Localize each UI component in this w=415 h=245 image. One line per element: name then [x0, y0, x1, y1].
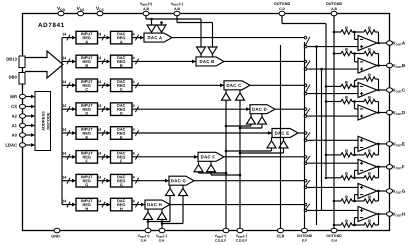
wire feedback A to output [375, 32, 379, 43]
resistor R (D1) [341, 95, 352, 104]
input register E [76, 127, 98, 140]
dac C [224, 81, 250, 90]
svg-text:AD7841: AD7841 [38, 22, 65, 29]
svg-text:A: A [120, 39, 123, 44]
svg-text:R: R [368, 25, 371, 30]
resistor R (E1) [341, 148, 352, 157]
wire dac reg B to dac B [132, 60, 196, 64]
wire feedback F to output [375, 167, 379, 178]
svg-text:R: R [345, 25, 348, 30]
svg-text:A1: A1 [12, 123, 18, 128]
wire input reg B to dac reg B [98, 60, 111, 64]
bus width slash 14 row B (mid) [97, 56, 105, 64]
svg-text:DB0: DB0 [9, 74, 18, 79]
svg-text:DAC B: DAC B [199, 59, 214, 64]
clear switch G [304, 179, 310, 188]
reference buffer C+ [222, 90, 231, 100]
svg-text:R: R [345, 194, 348, 199]
pin VOUTE [387, 142, 405, 148]
reference buffer A+ [147, 25, 156, 33]
pin CLR [276, 228, 285, 238]
wire dac reg F to dac F [132, 155, 198, 159]
svg-text:G,H: G,H [141, 238, 147, 242]
svg-text:DAC C: DAC C [226, 83, 241, 88]
svg-text:OUTGND: OUTGND [326, 234, 342, 238]
bus width slash 14 row B (input) [62, 56, 70, 64]
op-amp B [358, 58, 377, 73]
pin GND [51, 228, 60, 238]
svg-text:C,D,E,F: C,D,E,F [215, 238, 226, 242]
svg-text:H: H [85, 206, 88, 211]
input register D [76, 103, 98, 116]
dac register E [111, 127, 133, 140]
wire R junction H [352, 218, 364, 227]
bus width slash 14 row F (out) [131, 152, 139, 160]
bus width slash 14 row H (mid) [97, 199, 105, 207]
wire op-amp A output [377, 42, 390, 45]
svg-text:C: C [85, 87, 88, 92]
svg-text:C̅S̅: C̅S̅ [11, 104, 18, 109]
wire switch H to op-amp H input [307, 209, 358, 211]
reference buffer E+ [225, 138, 276, 153]
reference buffer C- [236, 90, 245, 100]
svg-text:DAC G: DAC G [171, 178, 187, 183]
bus branch row F [62, 155, 76, 159]
reference buffer F- [207, 161, 242, 176]
bus width slash 14 row C (input) [62, 80, 70, 88]
bus width slash 14 row D (input) [62, 104, 70, 112]
svg-text:DAC A: DAC A [148, 35, 163, 40]
svg-text:R: R [368, 218, 371, 223]
resistor R (G2) [364, 194, 375, 203]
wire input reg H to dac reg H [98, 203, 111, 207]
wire feedback network G from OUTGND rail [333, 200, 341, 203]
svg-text:C,D,E,F: C,D,E,F [236, 238, 247, 242]
bus width slash 14 row D (out) [131, 104, 139, 112]
wire dac C output [250, 84, 304, 86]
svg-text:G,H: G,H [331, 238, 337, 242]
pin VOUTC [387, 88, 406, 94]
svg-text:E: E [85, 135, 88, 140]
wire R junction C [352, 79, 364, 88]
dac register D [111, 103, 133, 116]
input register A [76, 31, 98, 44]
wire op-amp C output [377, 89, 390, 92]
resistor R (B1) [341, 47, 352, 56]
bus fan vertical [61, 38, 63, 205]
svg-text:A0: A0 [12, 133, 18, 138]
wire switch D to op-amp D input [307, 115, 358, 117]
chip boundary [23, 14, 390, 231]
dac register F [111, 150, 133, 163]
wire dac F output [224, 156, 304, 158]
pin VREF(-) A,B [171, 2, 184, 16]
wire input reg F to dac reg F [98, 155, 111, 159]
pin VOUTA [387, 41, 406, 47]
svg-text:A2: A2 [12, 114, 18, 119]
wire feedback network D from OUTGND rail [325, 100, 341, 103]
pin VREF(-) G,H [156, 228, 168, 242]
bus width slash 14 row F (mid) [97, 152, 105, 160]
rail OUTGND A,B / G,H [333, 16, 335, 231]
svg-text:R: R [345, 95, 348, 100]
dac register C [111, 79, 133, 92]
reference buffer E- [239, 138, 288, 155]
svg-text:W̅R̅: W̅R̅ [10, 94, 17, 99]
wire dac G output [194, 180, 304, 182]
reference buffer D+ [225, 114, 256, 128]
op-amp H [358, 207, 377, 222]
pin DB13 [6, 56, 25, 68]
svg-text:R: R [345, 80, 348, 85]
svg-text:A,B: A,B [331, 7, 337, 11]
input register G [76, 174, 98, 187]
wire switch G to op-amp G input [307, 186, 358, 188]
wire dac E output [298, 132, 304, 134]
pin OUTGND E,F [297, 228, 313, 242]
svg-text:OUTGND: OUTGND [297, 234, 313, 238]
wire op-amp F output [377, 166, 390, 169]
wire feedback network H from OUTGND rail [333, 224, 341, 227]
reference buffer H- [158, 209, 167, 219]
pin A0 [12, 133, 35, 138]
rail VREF(-) G,H [161, 219, 163, 230]
svg-text:E: E [120, 135, 123, 140]
bus width slash 14 row A (mid) [97, 32, 105, 40]
svg-text:DB13: DB13 [6, 56, 17, 61]
dac G [169, 176, 194, 185]
rail VREF(+) G,H [147, 219, 149, 230]
dac E [272, 129, 298, 138]
bus width slash 14 row H (out) [131, 199, 139, 207]
svg-text:DECODE: DECODE [46, 112, 51, 129]
dac H [145, 200, 170, 209]
wire feedback network E from OUTGND rail [325, 154, 341, 157]
bus width slash 14 row B (out) [131, 56, 139, 64]
bus branch row B [62, 60, 76, 64]
svg-text:A,B: A,B [143, 7, 149, 11]
wire dac B output [224, 60, 304, 62]
reference buffer B- [208, 47, 217, 57]
pin VOUTF [387, 164, 405, 170]
wire feedback network C from OUTGND rail [325, 85, 341, 88]
svg-text:R: R [368, 171, 371, 176]
power pin VCC [96, 6, 105, 16]
input register F [76, 150, 98, 163]
bus width slash 14 row E (input) [62, 128, 70, 136]
bus width slash 14 row C (mid) [97, 80, 105, 88]
clear switch H [304, 203, 310, 211]
reference buffer F+ [194, 161, 227, 174]
resistor R (F2) [364, 171, 375, 180]
svg-text:E,F: E,F [302, 238, 307, 242]
wire feedback network A from OUTGND rail [333, 31, 341, 34]
svg-text:OUTGND: OUTGND [326, 2, 343, 6]
dac register B [111, 55, 133, 68]
rail switch common 1 [315, 45, 318, 225]
bus width slash 14 row F (input) [62, 152, 70, 160]
wire R junction A [352, 31, 364, 40]
wire switch A to op-amp A input [307, 46, 358, 48]
dac register G [111, 174, 133, 187]
title AD7841 [38, 22, 65, 29]
op-amp A [358, 36, 377, 51]
bus width slash 14 row A (out) [131, 32, 139, 40]
wire dac H output [170, 204, 304, 206]
pin VREF(+) G,H [138, 228, 151, 242]
bus branch row H [62, 203, 76, 207]
data bus arrow [25, 51, 63, 78]
svg-text:DAC F: DAC F [201, 154, 216, 159]
wire dac reg G to dac G [132, 179, 169, 183]
pin VREF(-) C,D,E,F [236, 228, 248, 242]
dac register A [111, 31, 133, 44]
wire op-amp G output [377, 190, 390, 193]
wire feedback H to output [375, 214, 379, 225]
svg-text:L̅D̅A̅C̅: L̅D̅A̅C̅ [5, 143, 18, 148]
pin VOUTG [387, 189, 406, 195]
svg-text:R: R [345, 218, 348, 223]
wire VREF(+)A,B to buffers [146, 16, 201, 47]
wire op-amp H output [377, 213, 390, 216]
wire input reg E to dac reg E [98, 131, 111, 135]
op-amp D [358, 105, 377, 120]
wire R junction E [352, 148, 364, 157]
op-amp G [358, 184, 377, 199]
wire dac reg D to dac D [132, 107, 250, 111]
wire op-amp E output [377, 143, 390, 146]
wire input reg D to dac reg D [98, 107, 111, 111]
wire R junction F [352, 170, 364, 179]
pin LDAC [5, 143, 35, 148]
rail VREF(-) C,D,E,F [239, 100, 241, 230]
bus width slash 14 row G (mid) [97, 175, 105, 183]
wire R junction G [352, 195, 364, 203]
bus width slash 14 row E (out) [131, 128, 139, 136]
bus width slash 14 row C (out) [131, 80, 139, 88]
svg-text:B: B [85, 63, 88, 68]
svg-text:R: R [368, 148, 371, 153]
pin WR [10, 94, 35, 99]
pin OUTGND G,H [326, 228, 342, 242]
wire switch C to op-amp C input [307, 93, 358, 95]
svg-text:GND: GND [51, 234, 60, 238]
bus width slash 14 row G (out) [131, 175, 139, 183]
op-amp C [358, 83, 377, 98]
pin A2 [12, 114, 35, 119]
clear switch A [304, 36, 310, 48]
svg-text:G: G [85, 182, 88, 187]
pin VREF(+) A,B [140, 2, 153, 16]
svg-text:C,D: C,D [279, 7, 285, 11]
wire op-amp D output [377, 111, 390, 114]
svg-text:R: R [345, 148, 348, 153]
clear switch C [304, 84, 310, 95]
svg-text:R: R [368, 95, 371, 100]
resistor R (A2) [364, 25, 375, 34]
wire switch B to op-amp B input [307, 68, 358, 70]
clear switch E [304, 132, 310, 142]
wire R junction D [352, 100, 364, 109]
dac A [144, 33, 172, 42]
pin DB0 [9, 73, 25, 85]
address decoder [35, 92, 51, 151]
input register B [76, 55, 98, 68]
clear switch D [304, 108, 310, 118]
pin VREF(+) C,D,E,F [215, 228, 229, 242]
rail OUTGND E,F [304, 42, 306, 231]
svg-text:R: R [368, 47, 371, 52]
dac F [198, 152, 224, 161]
wire feedback C to output [375, 79, 379, 90]
bus branch row A [62, 36, 76, 40]
resistor R (D2) [364, 95, 375, 104]
wire feedback G to output [375, 191, 379, 201]
bus width slash 14 row E (mid) [97, 128, 105, 136]
wire feedback network F from OUTGND rail [325, 177, 341, 180]
svg-text:DAC D: DAC D [252, 107, 267, 112]
wire dac reg H to dac H [132, 203, 145, 207]
resistor R (B2) [364, 47, 375, 56]
input register H [76, 198, 98, 211]
svg-text:DAC H: DAC H [147, 202, 162, 207]
clear switch F [304, 156, 310, 165]
svg-text:A,B: A,B [174, 7, 180, 11]
wire VREF(-)A,B to buffers [160, 16, 212, 47]
resistor R (H2) [364, 218, 375, 227]
wire input reg A to dac reg A [98, 36, 111, 40]
wire switch E to op-amp E input [307, 139, 358, 141]
pin CS [11, 104, 35, 109]
wire input reg C to dac reg C [98, 83, 111, 87]
bus width slash 14 row H (input) [62, 199, 70, 207]
resistor R (E2) [364, 148, 375, 157]
bus width slash 14 row D (mid) [97, 104, 105, 112]
bus branch row D [62, 107, 76, 111]
reference buffer B+ [197, 47, 206, 57]
reference buffer D- [239, 114, 267, 130]
svg-text:A: A [85, 39, 88, 44]
svg-text:G: G [120, 182, 123, 187]
power pin VDD [57, 6, 66, 16]
bus width slash 14 row G (input) [62, 175, 70, 183]
resistor R (F1) [341, 171, 352, 180]
rail VREF(+) C,D,E,F [225, 100, 227, 230]
svg-text:R: R [368, 194, 371, 199]
bus branch row G [62, 179, 76, 183]
power pin VSS [77, 6, 85, 16]
svg-text:H: H [120, 206, 123, 211]
dac register H [111, 198, 133, 211]
reference buffer G- [161, 185, 188, 225]
wire feedback D to output [375, 102, 379, 113]
pin A1 [12, 123, 35, 128]
resistor R (C1) [341, 80, 352, 89]
bus branch row C [62, 83, 76, 87]
resistor R (G1) [341, 194, 352, 203]
resistor R (A1) [341, 25, 352, 34]
svg-text:R: R [368, 72, 371, 77]
svg-text:C̅L̅R̅: C̅L̅R̅ [276, 234, 285, 238]
rail OUTGND C,D / E,F networks [325, 24, 327, 177]
pin VOUTD [387, 110, 406, 116]
reference buffer H+ [144, 209, 153, 219]
op-amp E [358, 136, 377, 151]
svg-text:R: R [345, 171, 348, 176]
wire R junction B [352, 52, 364, 62]
svg-text:G,H: G,H [159, 238, 165, 242]
svg-text:DAC E: DAC E [275, 131, 290, 136]
dac B [196, 57, 224, 66]
wire OUTGND C,D drop [282, 16, 326, 24]
wire dac D output [275, 108, 304, 110]
bus branch row E [62, 131, 76, 135]
clear switch B [304, 60, 310, 70]
rail CLR [280, 45, 282, 231]
pin VOUTB [387, 63, 406, 69]
wire switch F to op-amp F input [307, 162, 358, 164]
pin OUTGND C,D [274, 2, 291, 16]
wire feedback B to output [375, 54, 379, 66]
pin VOUTH [387, 212, 406, 218]
wire dac reg C to dac C [132, 83, 224, 87]
svg-text:C: C [120, 87, 123, 92]
wire feedback E to output [375, 144, 379, 155]
svg-text:D: D [120, 111, 123, 116]
op-amp F [358, 159, 377, 174]
svg-text:R: R [345, 47, 348, 52]
svg-text:B: B [120, 63, 123, 68]
wire dac A output [172, 37, 304, 39]
resistor R (C2) [364, 72, 375, 81]
dac D [250, 105, 275, 114]
resistor R (H1) [341, 218, 352, 227]
reference buffer G+ [147, 185, 175, 223]
bus width slash 14 row A (input) [62, 32, 70, 40]
wire op-amp B output [377, 64, 390, 67]
svg-text:D: D [85, 111, 88, 116]
wire feedback network B from OUTGND rail [333, 52, 341, 55]
wire dac reg E to dac E [132, 131, 272, 135]
input register C [76, 79, 98, 92]
wire dac reg A to dac A [132, 36, 144, 40]
rail switch common 2 [320, 68, 323, 210]
pin OUTGND A,B [326, 2, 343, 16]
reference buffer A- [157, 25, 166, 33]
wire input reg G to dac reg G [98, 179, 111, 183]
svg-text:OUTGND: OUTGND [274, 2, 291, 6]
